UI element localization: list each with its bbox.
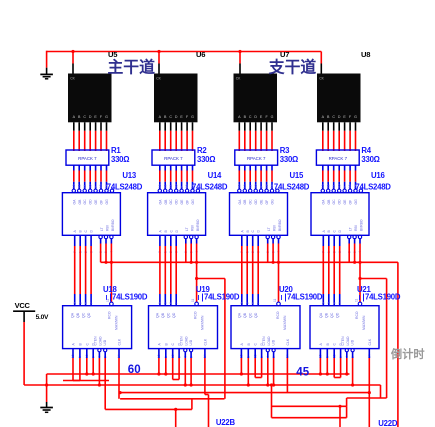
svg-text:CLK: CLK <box>368 338 372 345</box>
wire: horizontal net y380.5 under U18 <box>63 380 109 382</box>
wire: resistor pack to decoder output <box>271 165 273 170</box>
wire: preset pin pair hook <box>255 377 261 379</box>
svg-text:BI/RBO: BI/RBO <box>360 219 364 231</box>
pin: decoder output bubble <box>94 189 97 192</box>
svg-text:BI/RBO: BI/RBO <box>111 219 115 231</box>
svg-text:RCO: RCO <box>355 311 359 319</box>
wire: resistor pack to decoder output <box>181 165 183 170</box>
wire: resistor pack to decoder output <box>78 165 80 170</box>
wire: counter preset pin to net <box>79 358 81 381</box>
svg-text:D: D <box>338 115 341 119</box>
wire: resistor pack to decoder output <box>338 165 340 170</box>
wire: counter pin stub <box>273 352 275 358</box>
svg-text:OF: OF <box>186 200 190 205</box>
wire: decoder BCD input from counter output <box>241 235 243 246</box>
ground: bottom-left ground symbol <box>40 407 53 409</box>
wire: display segment pin to resistor pack <box>186 122 188 131</box>
wire: decoder BCD input from counter output <box>90 235 92 246</box>
svg-text:74LS190D: 74LS190D <box>287 292 323 301</box>
svg-text:VCC: VCC <box>15 301 31 310</box>
wire: display segment pin to resistor pack <box>170 122 172 131</box>
wire: counter pin stub <box>79 349 81 358</box>
pin numbers: U20 top pins <box>240 298 277 304</box>
wire: display segment pin to resistor pack <box>73 122 75 131</box>
svg-text:10: 10 <box>88 184 92 188</box>
label: decoder designator U14 <box>192 171 228 191</box>
wire: display segment pin to resistor pack <box>355 122 357 131</box>
wire: resistor pack to decoder output <box>255 165 257 170</box>
svg-text:CK: CK <box>319 77 324 81</box>
svg-text:OB: OB <box>243 199 247 205</box>
wire: resistor pack to decoder output <box>249 165 251 170</box>
pin: decoder active-low input bubble <box>271 235 274 238</box>
pin: decoder output bubble <box>78 189 81 192</box>
pin: U20 bottom bubbles CTEN LOAD <box>266 349 275 352</box>
label: resistor pack R3 value <box>280 146 298 164</box>
svg-text:12: 12 <box>78 184 82 188</box>
wire: resistor pack to decoder output <box>244 165 246 170</box>
svg-text:G: G <box>271 115 274 119</box>
svg-text:3: 3 <box>158 302 162 304</box>
wire: counter preset pin to net <box>352 358 354 385</box>
svg-text:10: 10 <box>174 184 178 188</box>
pin: U19 bottom bubbles CTEN LOAD <box>184 349 193 352</box>
pin: counter U19 load bubble <box>195 302 199 306</box>
pin: U18 bottom bubbles CTEN LOAD <box>98 349 107 352</box>
wire: VCC horizontal rail y385 <box>24 384 380 386</box>
svg-text:11: 11 <box>355 298 359 302</box>
svg-text:2: 2 <box>78 302 82 304</box>
svg-text:R2: R2 <box>197 146 207 155</box>
wire: decoder BCD input from counter output <box>164 235 166 246</box>
pin: decoder output bubble <box>180 189 183 192</box>
pin: decoder output bubble <box>164 189 167 192</box>
pin numbers: U14 bottom pins <box>158 251 199 253</box>
svg-text:C: C <box>169 115 172 119</box>
label: decoder designator U16 <box>355 171 391 191</box>
svg-text:LOAD: LOAD <box>98 336 102 346</box>
svg-text:U5: U5 <box>108 50 118 59</box>
wire: resistor pack to decoder output <box>89 165 91 170</box>
wire: display segment pin to resistor pack <box>89 122 91 131</box>
svg-text:RCO: RCO <box>108 311 112 319</box>
wire: display segment pin to resistor pack <box>106 122 108 131</box>
pin: decoder output bubble <box>254 189 257 192</box>
svg-text:OF: OF <box>349 200 353 205</box>
wire: decoder BCD input from counter output <box>339 235 341 246</box>
svg-text:OF: OF <box>100 200 104 205</box>
svg-text:74LS248D: 74LS248D <box>192 182 228 191</box>
wire: counter pin stub <box>98 352 100 358</box>
svg-text:OD: OD <box>89 199 93 205</box>
svg-text:U/D: U/D <box>272 339 276 345</box>
wire: counter pin stub <box>86 349 88 358</box>
svg-text:RPACK 7: RPACK 7 <box>329 156 348 161</box>
svg-text:OC: OC <box>169 199 173 205</box>
pin numbers: U20 bottom pins <box>240 354 290 358</box>
svg-text:CLK: CLK <box>118 338 122 345</box>
svg-text:13: 13 <box>158 184 162 188</box>
wire: decoder LT/RBI/BI pin down <box>110 239 112 244</box>
wire: display segment pin to resistor pack <box>164 122 166 131</box>
svg-text:CK: CK <box>156 77 161 81</box>
wire: display segment pin to resistor pack <box>322 122 324 131</box>
svg-text:MAX/MIN: MAX/MIN <box>115 315 119 330</box>
label: counter designator U21 <box>357 285 401 302</box>
wire: decoder LT/RBI/BI pin down <box>185 239 187 244</box>
svg-text:RBI: RBI <box>354 225 358 231</box>
svg-text:15: 15 <box>185 184 189 188</box>
svg-text:D: D <box>254 115 257 119</box>
pin: decoder output bubble <box>185 189 188 192</box>
svg-text:OA: OA <box>158 199 162 205</box>
wire: horizontal net y409.4 <box>105 408 192 410</box>
pin: decoder active-low input bubble <box>353 235 356 238</box>
wire: counter pin stub <box>190 352 192 358</box>
svg-text:6: 6 <box>84 302 88 304</box>
wire: display segment pin to resistor pack <box>244 122 246 131</box>
pin: U21 bottom bubbles CTEN LOAD <box>345 349 354 352</box>
svg-text:LT: LT <box>349 227 353 231</box>
svg-text:9: 9 <box>180 186 184 188</box>
pin: decoder active-low input bubble <box>277 235 280 238</box>
wire: load line to counter U20 <box>278 262 280 302</box>
wire: resistor pack to decoder output <box>186 165 188 170</box>
wire: counter pin stub <box>178 349 180 358</box>
label: counter designator U20 <box>279 285 323 302</box>
pin: counter U20 load bubble <box>277 302 281 306</box>
svg-text:330Ω: 330Ω <box>280 155 298 164</box>
svg-text:OA: OA <box>238 199 242 205</box>
wire: display segment pin to resistor pack <box>344 122 346 131</box>
wire: decoder BCD input from counter output <box>159 235 161 246</box>
svg-text:U7: U7 <box>280 50 289 59</box>
svg-text:14: 14 <box>270 184 274 188</box>
pin: decoder output bubble <box>265 189 268 192</box>
wire: counter pin stub <box>247 349 249 358</box>
svg-text:OC: OC <box>83 199 87 205</box>
pin: decoder output bubble <box>175 189 178 192</box>
svg-text:U22D: U22D <box>378 419 398 427</box>
svg-text:2: 2 <box>164 302 168 304</box>
counter U20 74LS190D <box>231 306 300 349</box>
pin numbers: U16 bottom pins <box>322 251 363 253</box>
wire: counter pin stub <box>240 349 242 358</box>
pin: decoder output bubble <box>72 189 75 192</box>
svg-text:45: 45 <box>296 366 309 378</box>
pin: decoder output bubble <box>327 189 330 192</box>
wire: counter preset pin to net <box>240 358 242 374</box>
label: counter designator U18 <box>103 285 148 302</box>
svg-text:QC: QC <box>81 312 85 318</box>
wire: left leg of clock bus down to ground <box>46 51 48 68</box>
svg-text:BI/RBO: BI/RBO <box>196 219 200 231</box>
svg-text:C: C <box>83 115 86 119</box>
svg-text:C: C <box>332 115 335 119</box>
pin numbers: U13 top output pins <box>72 184 109 188</box>
wire: counter pin stub <box>326 349 328 358</box>
svg-text:14: 14 <box>191 184 195 188</box>
wire: resistor pack to decoder output <box>159 165 161 170</box>
svg-text:MAX/MIN: MAX/MIN <box>201 315 205 330</box>
svg-text:RCO: RCO <box>194 311 198 319</box>
svg-text:74LS190D: 74LS190D <box>204 292 240 301</box>
wire: resistor pack to decoder output <box>266 165 268 170</box>
svg-text:CLK: CLK <box>286 338 290 345</box>
svg-text:OE: OE <box>343 199 347 205</box>
wire: counter preset pin to net <box>86 358 88 374</box>
svg-text:OD: OD <box>175 199 179 205</box>
wire: decoder BCD input from counter output <box>322 235 324 246</box>
pin: decoder RBO output bubble <box>196 189 199 192</box>
wire: decoder BCD input from counter output <box>328 235 330 246</box>
pin: decoder output bubble <box>89 189 92 192</box>
wire: counter pin stub <box>261 349 263 358</box>
pin: decoder output bubble <box>99 189 102 192</box>
wire: resistor pack to decoder output <box>95 165 97 170</box>
pin: decoder active-low input bubble <box>348 235 351 238</box>
wire: display segment pin to resistor pack <box>78 122 80 131</box>
svg-text:OB: OB <box>327 199 331 205</box>
svg-text:10: 10 <box>254 184 258 188</box>
svg-text:OG: OG <box>271 199 275 205</box>
resistor pack R4 RPACK 7 <box>316 150 359 165</box>
node: junction on clock bus <box>71 50 74 53</box>
svg-text:RPACK 7: RPACK 7 <box>247 156 266 161</box>
pin: decoder RBO output bubble <box>359 189 362 192</box>
svg-text:7: 7 <box>338 302 342 304</box>
wire: counter clock pin stub <box>286 349 288 358</box>
wire: decoder BCD input from counter output <box>246 235 248 246</box>
wire: counter pin stub <box>165 349 167 358</box>
pin: decoder active-low input bubble <box>195 235 198 238</box>
label: resistor pack R2 value <box>197 146 215 164</box>
wire: counter preset pin to net <box>172 358 174 380</box>
wire: display segment pin to resistor pack <box>159 122 161 131</box>
wire: counter pin stub <box>72 349 74 358</box>
wire: display segment pin to resistor pack <box>333 122 335 131</box>
pin: decoder output bubble <box>332 189 335 192</box>
svg-text:支干道: 支干道 <box>268 57 317 76</box>
wire: resistor pack to decoder output <box>322 165 324 170</box>
svg-text:60: 60 <box>128 364 141 376</box>
svg-text:6: 6 <box>251 302 255 304</box>
pin: decoder output bubble <box>343 189 346 192</box>
pin numbers: U21 top pins <box>322 298 359 304</box>
pin: decoder output bubble <box>249 189 252 192</box>
decoder U16 74LS248D <box>311 193 369 236</box>
pin numbers: U19 bottom pins <box>157 354 207 358</box>
wire: display segment pin to resistor pack <box>84 122 86 131</box>
wire: counter clock pin stub <box>368 349 370 358</box>
pin: decoder output bubble <box>83 189 86 192</box>
wire: resistor pack to decoder output <box>333 165 335 170</box>
counter U21 74LS190D <box>310 306 379 349</box>
wire: preset pin pair hook <box>73 380 80 382</box>
wire: display segment pin to resistor pack <box>181 122 183 131</box>
node: junction on clock bus <box>157 50 160 53</box>
counter U18 74LS190D <box>63 306 132 349</box>
wire: decoder BCD input from counter output <box>79 235 81 246</box>
wire: counter preset pin to net <box>184 358 186 385</box>
pin: decoder output bubble <box>105 189 108 192</box>
svg-text:QB: QB <box>161 312 165 318</box>
svg-text:74LS248D: 74LS248D <box>274 182 310 191</box>
seven-segment display U6 <box>154 74 198 123</box>
svg-text:6: 6 <box>169 302 173 304</box>
wire: decoder LT/RBI/BI pin down <box>105 239 107 244</box>
node: junctions of LT/RBI/BI pins on bus <box>104 261 361 264</box>
wire: horizontal net y392.6 <box>120 392 369 394</box>
wire: counter preset pin to net <box>273 358 275 385</box>
svg-text:U/D: U/D <box>189 339 193 345</box>
wire: display segment pin to resistor pack <box>266 122 268 131</box>
pin: decoder active-low input bubble <box>266 235 269 238</box>
pin numbers: U15 bottom pins <box>240 251 281 253</box>
wire: counter preset pin to net <box>340 358 342 378</box>
wire: load line to counter U19 with branch <box>196 262 198 302</box>
svg-text:CK: CK <box>236 77 241 81</box>
counter U19 74LS190D <box>149 306 218 349</box>
pin numbers: U18 bottom pins <box>71 354 121 358</box>
wire: counter pin stub <box>333 349 335 358</box>
ground: top-left ground symbol <box>40 73 53 75</box>
wire: decoder LT/RBI/BI pin down <box>100 239 102 244</box>
wire: counter pin stub <box>346 352 348 358</box>
wire: resistor pack to decoder output <box>170 165 172 170</box>
label: resistor pack R1 value <box>111 146 129 164</box>
svg-text:OB: OB <box>164 199 168 205</box>
svg-text:13: 13 <box>238 184 242 188</box>
wire: counter preset pin to net <box>326 358 328 374</box>
wire: decoder LT/RBI/BI pin down <box>354 239 356 244</box>
seven-segment display U5 <box>68 74 112 123</box>
wire: counter clock pin stub <box>118 349 120 358</box>
wire: counter preset pin to net <box>158 358 160 374</box>
wire: decoder BCD input from counter output <box>170 235 172 246</box>
svg-text:13: 13 <box>72 184 76 188</box>
svg-text:QA: QA <box>319 312 323 318</box>
wire: display segment pin to resistor pack <box>100 122 102 131</box>
svg-text:7: 7 <box>174 302 178 304</box>
wire: resistor pack to decoder output <box>349 165 351 170</box>
label: resistor pack R4 value <box>361 146 379 164</box>
svg-text:G: G <box>191 115 194 119</box>
svg-text:主干道: 主干道 <box>108 57 156 76</box>
svg-text:3: 3 <box>240 302 244 304</box>
pin: decoder output bubble <box>259 189 262 192</box>
pin: decoder RBO output bubble <box>110 189 113 192</box>
wire: counter preset pin to net <box>247 358 249 385</box>
svg-text:RBI: RBI <box>273 225 277 231</box>
pin numbers: U13 bottom pins <box>73 251 114 253</box>
svg-text:QA: QA <box>71 312 75 318</box>
wire: vertical drop to gate U22A <box>175 409 177 427</box>
svg-text:15: 15 <box>99 184 103 188</box>
pin: decoder active-low input bubble <box>190 235 193 238</box>
wire: counter preset pin to net <box>286 358 288 393</box>
wire: counter preset pin to net <box>204 358 206 395</box>
svg-text:OE: OE <box>94 199 98 205</box>
svg-text:QA: QA <box>156 312 160 318</box>
pin: counter U18 load bubble <box>110 302 114 306</box>
svg-text:3: 3 <box>322 302 326 304</box>
svg-text:RPACK 7: RPACK 7 <box>164 156 183 161</box>
pin: decoder active-low input bubble <box>184 235 187 238</box>
svg-text:RPACK 7: RPACK 7 <box>78 156 97 161</box>
wire: decoder BCD input from counter output <box>252 235 254 246</box>
svg-text:CTEN: CTEN <box>94 336 98 346</box>
pin: decoder output bubble <box>238 189 241 192</box>
wire: clock tap to display U6 CK pin <box>158 52 160 64</box>
pin: decoder output bubble <box>338 189 341 192</box>
svg-text:LT: LT <box>100 227 104 231</box>
svg-text:12: 12 <box>326 184 330 188</box>
svg-text:LOAD: LOAD <box>184 336 188 346</box>
svg-text:OB: OB <box>78 199 82 205</box>
svg-text:10: 10 <box>337 184 341 188</box>
wire: drop to net y409.4 <box>191 399 193 410</box>
svg-text:LOAD: LOAD <box>267 336 271 346</box>
wire: counter preset pin to net <box>98 358 100 385</box>
svg-text:D: D <box>89 115 92 119</box>
wire: counter preset pin to net <box>319 358 321 374</box>
svg-text:R3: R3 <box>280 146 290 155</box>
svg-text:QD: QD <box>254 312 258 318</box>
wire: resistor pack to decoder output <box>192 165 194 170</box>
wire: display segment pin to resistor pack <box>349 122 351 131</box>
svg-text:6: 6 <box>332 302 336 304</box>
svg-text:330Ω: 330Ω <box>197 155 215 164</box>
wire: counter preset pin to net <box>190 358 192 385</box>
svg-text:MAX/MIN: MAX/MIN <box>362 315 366 330</box>
svg-text:330Ω: 330Ω <box>361 155 379 164</box>
wire: resistor pack to decoder output <box>355 165 357 170</box>
pin: decoder active-low input bubble <box>99 235 102 238</box>
svg-text:QD: QD <box>87 312 91 318</box>
svg-text:330Ω: 330Ω <box>111 155 129 164</box>
wire: loop to gate U22B <box>270 383 347 427</box>
wire: U21 clock drop to bottom edge <box>368 358 370 427</box>
svg-text:7: 7 <box>89 302 93 304</box>
svg-text:D: D <box>175 115 178 119</box>
svg-text:11: 11 <box>332 184 336 188</box>
svg-text:U/D: U/D <box>351 339 355 345</box>
wire: resistor pack to decoder output <box>164 165 166 170</box>
svg-text:11: 11 <box>191 298 195 302</box>
wire: decoder LT/RBI/BI pin down <box>190 239 192 244</box>
svg-text:G: G <box>354 115 357 119</box>
wire: blanking control bus <box>101 261 398 263</box>
wire: display segment pin to resistor pack <box>260 122 262 131</box>
svg-text:15: 15 <box>265 184 269 188</box>
wire: display segment pin to resistor pack <box>192 122 194 131</box>
svg-text:OC: OC <box>332 199 336 205</box>
svg-text:OD: OD <box>254 199 258 205</box>
decoder U15 74LS248D <box>230 193 288 236</box>
wire: load line to counter U18 <box>110 262 112 302</box>
svg-text:74LS248D: 74LS248D <box>355 182 391 191</box>
svg-text:RBI: RBI <box>191 225 195 231</box>
svg-text:11: 11 <box>169 184 173 188</box>
svg-text:9: 9 <box>94 186 98 188</box>
svg-text:QB: QB <box>76 312 80 318</box>
pin numbers: U15 top output pins <box>238 184 275 188</box>
wire: display segment pin to resistor pack <box>327 122 329 131</box>
svg-text:U6: U6 <box>196 50 205 59</box>
wire: decoder LT/RBI/BI pin down <box>278 239 280 244</box>
pin: decoder output bubble <box>169 189 172 192</box>
